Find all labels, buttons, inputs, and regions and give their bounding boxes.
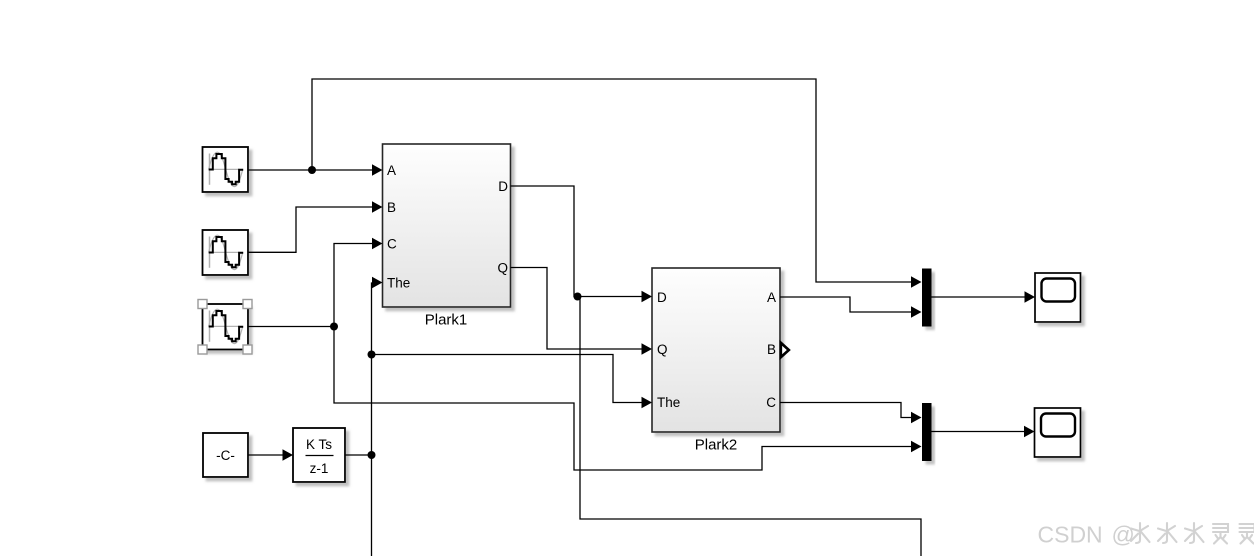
arrowhead into Plark1 B: [372, 201, 383, 212]
arrowhead into Plark2 Q: [642, 343, 653, 354]
arrowhead into Mux1 input 1: [911, 276, 922, 287]
arrowhead into Plark2 The: [642, 397, 653, 408]
junction on Sine1 wire: [308, 166, 316, 174]
svg-text:Q: Q: [497, 260, 508, 275]
svg-text:-C-: -C-: [216, 448, 235, 463]
svg-text:A: A: [387, 163, 396, 178]
arrowhead into Mux2 input 1: [911, 412, 922, 423]
mux Mux1: [922, 269, 932, 327]
svg-text:A: A: [767, 290, 776, 305]
svg-text:The: The: [657, 395, 680, 410]
svg-text:C: C: [766, 395, 776, 410]
svg-text:B: B: [387, 200, 396, 215]
svg-text:C: C: [387, 236, 397, 251]
junction theta net branch to Plark2: [368, 351, 376, 359]
wire transfer function to Plark1 The (net theta): [345, 454, 372, 456]
wire Mux2 to Scope2: [932, 431, 1025, 433]
subsystem block Plark1: [383, 144, 511, 307]
arrowhead into Plark1 C: [372, 238, 383, 249]
wire branch D net down and off bottom: [580, 297, 921, 556]
arrowhead into Mux2 input 2: [911, 441, 922, 452]
svg-text:The: The: [387, 275, 410, 290]
scope Scope2: [1035, 408, 1081, 457]
sine wave source block Sine1: [203, 147, 249, 192]
wire Sine2 to Plark1 B: [249, 207, 373, 252]
wire branch Sine3 to Mux2 input 2: [334, 327, 912, 471]
wire Plark2 A to Mux1 input 2: [780, 297, 912, 312]
mux Mux2: [922, 403, 932, 461]
junction on D wire: [574, 293, 582, 301]
junction on Sine3 wire: [330, 323, 338, 331]
scope Scope1: [1035, 273, 1081, 322]
svg-text:B: B: [767, 342, 776, 357]
wire Plark1 Q to Plark2 Q: [511, 268, 643, 350]
arrowhead into Plark2 D: [642, 291, 653, 302]
watermark chinese characters: [1131, 523, 1254, 544]
selection handles of Sine3: [198, 300, 252, 355]
wire theta net to Plark2 The: [372, 355, 643, 403]
subsystem block Plark2: [652, 268, 780, 432]
wire Mux1 to Scope1: [932, 296, 1025, 298]
wire Sine3 to Plark1 C: [249, 244, 373, 327]
svg-text:D: D: [657, 290, 667, 305]
discrete transfer function block K Ts/(z-1): [293, 428, 345, 482]
wire Plark2 C to Mux2 input 1: [780, 403, 912, 418]
arrowhead into Scope2: [1024, 426, 1035, 437]
constant block -C-: [203, 433, 248, 477]
arrowhead into Plark1 A: [372, 164, 383, 175]
arrowhead into transfer function: [283, 449, 294, 460]
junction theta net at transfer output: [368, 451, 376, 459]
svg-text:Plark2: Plark2: [695, 437, 738, 454]
arrowhead into Scope1: [1025, 291, 1036, 302]
svg-text:@: @: [1112, 522, 1135, 548]
wire Constant to transfer function: [249, 454, 283, 456]
wire branch Sine1 to Mux1 input 1 (over the top): [312, 79, 912, 282]
sine wave source block Sine3 (selected): [203, 304, 249, 350]
svg-text:Q: Q: [657, 342, 668, 357]
svg-text:K Ts: K Ts: [306, 437, 332, 452]
svg-text:CSDN: CSDN: [1038, 522, 1103, 548]
arrowhead into Plark1 The: [372, 277, 383, 288]
wire Plark1 D to Plark2 D: [511, 186, 643, 297]
unconnected output port B of Plark2: [781, 343, 789, 357]
svg-text:D: D: [498, 179, 508, 194]
arrowhead into Mux1 input 2: [911, 306, 922, 317]
sine wave source block Sine2: [203, 230, 249, 275]
svg-text:Plark1: Plark1: [425, 312, 468, 329]
svg-text:z-1: z-1: [310, 461, 329, 476]
wire vertical theta net: [371, 283, 374, 556]
wire Sine1 to Plark1 A: [249, 169, 373, 171]
